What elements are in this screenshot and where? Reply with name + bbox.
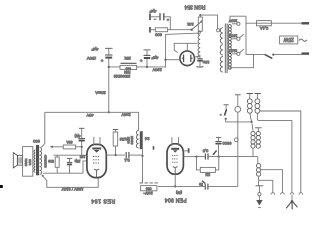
svg-text:10n: 10n xyxy=(203,60,210,65)
wire xyxy=(165,17,171,30)
svg-text:10k: 10k xyxy=(187,22,193,27)
capacitor C5 xyxy=(67,157,73,159)
filament winding W3 pair xyxy=(255,127,262,129)
rectifier heater winding W1 xyxy=(198,31,200,56)
svg-text:500: 500 xyxy=(48,159,54,163)
svg-text:2x4V~: 2x4V~ xyxy=(143,191,153,195)
svg-text:70/09: 70/09 xyxy=(24,158,28,166)
resistor R4 xyxy=(55,157,59,167)
capacitor C4 10n xyxy=(199,55,201,59)
T2 primary winding right xyxy=(40,148,42,175)
anode wire RES xyxy=(106,154,125,156)
svg-text:190V: 190V xyxy=(152,68,162,73)
T3 bottom lead down xyxy=(142,149,144,183)
svg-text:1:4: 1:4 xyxy=(145,136,150,140)
svg-text:RGN 354: RGN 354 xyxy=(184,4,205,10)
label 25W xyxy=(280,36,298,44)
chassis symbol xyxy=(291,195,293,201)
svg-text:(50): (50) xyxy=(176,191,182,195)
svg-text:40V: 40V xyxy=(86,113,93,118)
rectifier tube V1 RGN354 xyxy=(180,51,195,66)
output transformer T2 housing xyxy=(23,147,33,177)
coupling cap C6 xyxy=(125,152,127,158)
cap C8 above xyxy=(216,136,221,138)
resistor R1 800 xyxy=(155,28,167,32)
svg-text:+: + xyxy=(140,58,143,63)
wire to choke xyxy=(219,156,258,158)
svg-text:2500: 2500 xyxy=(127,137,131,144)
capacitor C1 (series input electrolytic) xyxy=(159,13,161,20)
mains switch S1 xyxy=(246,23,265,54)
svg-text:105: 105 xyxy=(80,154,86,158)
T2 bottom arrow to ground xyxy=(42,175,47,180)
arrow to junction xyxy=(214,150,217,154)
T1 primary winding right xyxy=(228,25,231,70)
coupling cap C7 xyxy=(204,153,206,159)
wire anode right + arrow xyxy=(194,56,198,58)
wire HT rail xyxy=(109,66,166,68)
svg-text:800: 800 xyxy=(154,33,161,38)
lamp xyxy=(235,94,241,96)
node pot top xyxy=(199,14,201,16)
svg-text:50: 50 xyxy=(199,182,203,186)
wire xyxy=(150,16,159,18)
svg-text:+: + xyxy=(100,58,103,63)
fuse 0,1A xyxy=(257,21,272,26)
svg-text:25300/D29: 25300/D29 xyxy=(114,74,131,78)
box 030 xyxy=(141,186,157,191)
tap 230V xyxy=(232,23,237,25)
grid bias terminal + cap branch xyxy=(79,127,85,129)
T1 secondary winding left xyxy=(220,28,223,72)
input terminal top xyxy=(149,14,151,21)
T3 right bottom terminal xyxy=(153,146,155,149)
svg-text:25W: 25W xyxy=(283,36,294,42)
side lead xyxy=(260,170,283,193)
svg-text:20mA: 20mA xyxy=(95,91,106,96)
svg-text:PEN 904: PEN 904 xyxy=(165,197,187,203)
svg-text:4µF: 4µF xyxy=(151,55,159,60)
filter: right cap C3 xyxy=(144,49,151,51)
mains terminal top xyxy=(302,22,310,24)
svg-text:6300: 6300 xyxy=(222,141,232,146)
wire xyxy=(150,29,155,31)
svg-text:800: 800 xyxy=(125,66,131,70)
svg-text:800: 800 xyxy=(32,139,39,144)
cap C9 xyxy=(204,184,206,190)
svg-text:25µ: 25µ xyxy=(75,159,81,163)
svg-text:110V: 110V xyxy=(228,49,237,53)
svg-text:4µF: 4µF xyxy=(149,9,157,14)
filament winding W2 pair xyxy=(247,93,261,95)
screen side terminal xyxy=(183,150,187,152)
mains terminal bottom xyxy=(302,52,310,54)
svg-text:150V: 150V xyxy=(86,56,96,61)
grid leak R5 xyxy=(113,129,119,131)
svg-text:150V: 150V xyxy=(228,34,237,38)
svg-text:4µF: 4µF xyxy=(91,47,99,52)
wire pot bottom rail xyxy=(197,31,201,33)
arrow at cap xyxy=(202,181,205,184)
PEN cathode bottom xyxy=(174,174,176,186)
T3 core xyxy=(140,131,143,149)
wire primary bottom xyxy=(230,54,254,69)
wire pot top to winding terminal xyxy=(200,15,217,29)
svg-text:Rfld: Rfld xyxy=(124,70,130,74)
T1 primary top lead xyxy=(230,16,246,22)
input terminal bottom xyxy=(149,27,151,33)
resistor R3 800 box xyxy=(120,65,137,69)
grid lead RES xyxy=(83,161,87,173)
mains wire top xyxy=(246,16,257,23)
T2 secondary winding left xyxy=(34,150,35,172)
wire corner to interstage xyxy=(138,112,140,130)
svg-text:0,1: 0,1 xyxy=(123,158,129,163)
choke winding W4 xyxy=(257,164,261,177)
tube V3 PEN904 xyxy=(167,144,183,174)
wire xyxy=(168,29,192,31)
interstage transformer T3 winding xyxy=(136,130,138,148)
wire tube top lead xyxy=(186,43,188,51)
svg-text:2x4V: 2x4V xyxy=(121,112,130,117)
svg-text:0,1A: 0,1A xyxy=(260,26,269,31)
svg-text:4000/800: 4000/800 xyxy=(43,155,47,168)
rail down from C2 junction xyxy=(108,111,110,113)
T2 core xyxy=(36,145,39,175)
svg-text:RES 164: RES 164 xyxy=(91,197,115,203)
svg-text:80A: 80A xyxy=(66,140,73,144)
cathode bias network xyxy=(54,154,88,156)
node wiper xyxy=(191,29,193,31)
potentiometer P1 xyxy=(198,17,202,31)
svg-text:230V: 230V xyxy=(228,19,237,23)
wire heater rail xyxy=(45,111,139,113)
speaker xyxy=(13,153,17,168)
filter: left cap C2 xyxy=(105,47,113,49)
power transformer T1 core xyxy=(225,24,227,74)
T2 primary top lead xyxy=(41,112,44,147)
svg-text:0,5M: 0,5M xyxy=(120,137,128,141)
svg-text:60/4: 60/4 xyxy=(28,159,32,165)
anode wire PEN xyxy=(183,156,196,158)
terminal hooks xyxy=(271,193,275,195)
svg-text:0,5: 0,5 xyxy=(202,148,208,153)
wire anode left xyxy=(166,59,180,61)
svg-text:25k: 25k xyxy=(124,56,130,61)
svg-text:139V / 110V: 139V / 110V xyxy=(61,187,83,192)
push switch S2 xyxy=(224,104,229,106)
svg-text:1M: 1M xyxy=(205,172,210,176)
node K1 terminal circle xyxy=(217,29,220,32)
tap 150V xyxy=(232,38,237,40)
ground wire xyxy=(43,172,83,174)
resistor R7 row xyxy=(51,146,81,148)
grid resistor R6 1M xyxy=(197,157,219,170)
edge mark xyxy=(0,185,3,188)
svg-text:030: 030 xyxy=(146,186,152,190)
tap 110V xyxy=(232,53,237,55)
tube V2 RES164 xyxy=(87,144,106,177)
heater dashes xyxy=(140,182,159,184)
svg-text:10000: 10000 xyxy=(130,136,134,145)
potentiometer P1 wiper arrow xyxy=(192,21,202,30)
wire HT top xyxy=(174,43,198,52)
svg-text:4µ(): 4µ() xyxy=(75,134,81,138)
terminal + earth xyxy=(256,185,264,187)
